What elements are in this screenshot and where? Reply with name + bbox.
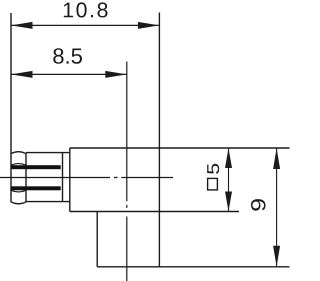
arrowhead 10.8 right [138,22,160,29]
extension line for 8.5 / leg centerline (solid upper part) [126,62,128,202]
arrowhead 8.5 right [105,71,127,78]
barrel front face line [62,153,64,202]
arrowhead square5 down [225,192,232,212]
dimension text 10.8 [64,2,108,17]
tip right edge [25,153,27,202]
square symbol of square5 label [208,178,218,190]
body bottom edge + extension [70,211,239,213]
arrowhead 8.5 left [11,71,33,78]
leg centerline lower dash [126,217,128,281]
leg left edge [96,212,98,267]
dimension line 9 [276,148,278,267]
dimension text 8.5 [53,48,82,64]
horizontal centerline dot [114,177,118,179]
extension line right (body right edge, full height) [158,13,160,267]
dimension line 10.8 [11,24,159,26]
arrowhead 10.8 left [11,22,33,29]
tip bottom dome arc [11,202,26,204]
leg centerline dot [126,205,128,208]
barrel bottom edge [26,201,70,203]
tip lower slot arc [11,190,26,192]
body top edge + extension to right [70,147,290,149]
tip top dome arc [11,152,26,154]
dimension line square5 [228,148,230,212]
barrel top edge [26,152,70,154]
arrowhead 9 down [273,246,280,267]
contact slot bar upper [11,165,61,169]
horizontal centerline dash left [0,177,110,179]
arrowhead 9 up [273,148,280,169]
text 9 (rotated) [251,199,266,211]
arrowhead square5 up [225,148,232,168]
text 5 of square5 label (rotated) [207,164,219,174]
contact slot bar lower [11,186,61,190]
leg bottom edge + extension [97,266,289,268]
horizontal centerline dash right [121,177,173,179]
extension line left (tip face) + tip left edge [10,13,12,202]
tip upper slot arc [11,164,26,166]
body left edge [69,148,71,212]
dimension line 8.5 [11,73,127,75]
